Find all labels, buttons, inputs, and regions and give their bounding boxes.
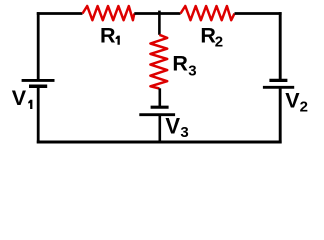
svg-text:R: R: [172, 51, 188, 75]
wire right side lower: [279, 87, 282, 143]
wire left side lower: [37, 86, 40, 143]
svg-text:2: 2: [300, 98, 308, 115]
wire top-left segment: [37, 12, 83, 15]
svg-text:V: V: [165, 114, 180, 139]
svg-text:2: 2: [215, 33, 223, 50]
wire right side upper: [279, 12, 282, 80]
battery V2 long plate: [263, 86, 294, 89]
battery V2 short plate: [269, 79, 287, 82]
wire left side upper: [37, 12, 40, 80]
svg-text:V: V: [12, 86, 27, 110]
battery V3 short plate: [151, 106, 169, 109]
wire middle branch between R3 and V3: [159, 88, 162, 107]
resistor R2: [181, 6, 235, 20]
svg-text:3: 3: [180, 124, 188, 141]
wire top-middle segment: [134, 12, 180, 15]
resistor R3: [150, 35, 167, 89]
wire bottom: [37, 141, 282, 144]
node T-junction stub / wire middle branch top: [158, 11, 161, 35]
battery V1 short plate: [29, 85, 47, 89]
battery V1 long plate: [22, 79, 55, 82]
wire middle branch bottom: [159, 115, 162, 142]
battery V3 long plate: [139, 113, 175, 116]
svg-text:R: R: [100, 23, 116, 47]
svg-text:3: 3: [188, 63, 196, 80]
wire top-right segment: [235, 12, 282, 15]
resistor R1: [83, 6, 135, 20]
svg-text:V: V: [285, 88, 300, 112]
